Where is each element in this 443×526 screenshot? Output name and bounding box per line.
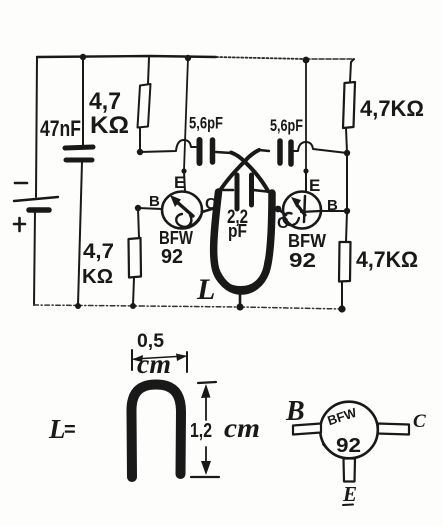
wire crossing diagonal D2 (C4 down to left inductor leg) (219, 150, 259, 192)
node junction R1 bottom (137, 149, 143, 155)
svg-text:KΩ: KΩ (82, 266, 113, 288)
capacitor C2 5.6pF left plate (197, 140, 203, 163)
svg-text:E: E (309, 176, 320, 195)
transistor Q1 circle (162, 192, 202, 229)
wire top supply rail (solid part) (37, 56, 216, 57)
wire emitter column left (top rail to node) (184, 58, 188, 170)
battery minus sign (15, 182, 27, 185)
capacitor C4 5.6pF right plate (288, 142, 294, 164)
transistor Q2 circle (283, 192, 321, 229)
wire top supply rail (dashed right part) (305, 58, 354, 60)
battery BT1 long plate (minus) (14, 197, 58, 201)
svg-text:C: C (277, 215, 289, 232)
dimension 1,2cm lower arrow line (205, 447, 207, 472)
transistor Q1 inner collector stroke (186, 215, 201, 227)
underline of pinout E label (343, 504, 353, 507)
svg-text:92: 92 (289, 250, 316, 272)
node junction R3/bottom rail (130, 303, 136, 309)
pinout circle doubled bottom arc (323, 444, 351, 459)
wire C4 right with hop over emitter column to right column (294, 142, 347, 153)
pinout lead B (left) (293, 424, 321, 435)
wire bottom lead of R1 (139, 128, 141, 152)
node junction right emitter column/top rail (303, 57, 310, 64)
wire right column upper segment (346, 153, 348, 211)
resistor R1 4.7k top-left body (138, 84, 151, 128)
wire bottom rail left segment (dash-dot) (34, 305, 140, 306)
wire crossing diagonal D1 (C2 down to right inductor leg) (231, 153, 268, 192)
transistor Q2 emitter arrow shaft (298, 206, 305, 215)
wire left vertical from battery to bottom rail (34, 211, 35, 305)
wire right column lower segment to R4 (346, 211, 347, 242)
wire bottom lead of R4 (341, 282, 343, 308)
svg-text:=: = (64, 419, 76, 441)
node junction C4 wire/right column (344, 150, 350, 156)
capacitor C4 5.6pF left plate (277, 141, 283, 163)
wire from C1 to bottom rail (78, 162, 82, 305)
capacitor C1 47nF bottom plate (66, 158, 92, 163)
svg-text:C: C (413, 411, 426, 432)
capacitor C2 5.6pF right plate (210, 140, 216, 162)
svg-text:KΩ: KΩ (90, 112, 129, 139)
dimension 0,5cm right arrowhead (176, 354, 187, 362)
wire bottom rail middle segment (dash-dot) (140, 306, 240, 307)
svg-text:47nF: 47nF (40, 116, 81, 141)
node small junction blob on right emitter column (303, 168, 308, 173)
inductor L detail hairpin (131, 385, 181, 478)
transistor Q1 emitter arrow shaft (177, 202, 193, 216)
wire bottom lead of R3 (133, 278, 134, 305)
svg-text:L: L (48, 414, 66, 444)
transistor Q1 emitter arrowhead (170, 195, 181, 207)
battery BT1 short thick plate (plus) (29, 207, 49, 213)
dimension 1,2cm bottom bar (191, 476, 219, 478)
node small junction blob on left emitter column (181, 168, 186, 173)
wire collector of Q1 to inductor leg (202, 208, 215, 212)
svg-text:92: 92 (336, 435, 361, 457)
svg-text:B: B (285, 396, 305, 427)
dimension 0,5cm left arrowhead (132, 355, 143, 362)
wire base of Q2 inside circle (301, 211, 320, 212)
wire left vertical from top rail to battery (36, 57, 37, 197)
resistor R3 4.7k bottom-left body (129, 238, 142, 278)
wire left stub of C4 to diagonal (259, 150, 269, 151)
wire top lead of R3 (138, 208, 139, 238)
svg-text:BFW: BFW (159, 228, 193, 248)
svg-text:4,7KΩ: 4,7KΩ (356, 247, 418, 272)
transistor Q2 emitter arrowhead (291, 197, 301, 208)
svg-text:5,6pF: 5,6pF (270, 116, 303, 135)
wire base of Q2 to right column (321, 210, 347, 212)
node junction Q2 collector/inductor leg (275, 206, 282, 213)
svg-text:BFW: BFW (288, 231, 326, 251)
svg-text:1,2: 1,2 (190, 420, 212, 442)
wire inductor tap to bottom rail (239, 293, 242, 306)
resistor R4 4.7k bottom-right body (339, 242, 351, 282)
wire collector of Q2 to inductor leg (278, 209, 286, 215)
dimension 1,2cm lower arrowhead (201, 461, 211, 475)
svg-text:B: B (327, 197, 338, 214)
wire emitter column right (top rail to node) (305, 61, 307, 170)
svg-text:L: L (196, 273, 215, 306)
node junction Q1 base/left column (135, 205, 141, 211)
pinout lead E (bottom) (344, 459, 356, 482)
wire top supply rail (dotted middle part) (216, 57, 305, 59)
dimension 0,5cm left tick (131, 350, 133, 370)
wire bottom rail right segment (dash-dot) (240, 307, 342, 309)
wire C2 to crossing diagonal (216, 152, 231, 153)
svg-text:92: 92 (161, 246, 183, 268)
dimension 1,2cm upper arrow line (205, 388, 207, 420)
svg-text:C: C (205, 196, 217, 213)
wire right emitter lead into Q2 (305, 171, 307, 192)
transistor Q2 inner emitter bar (304, 196, 305, 222)
dimension 1,2cm top bar (198, 382, 216, 383)
node junction R4/bottom rail (338, 305, 345, 312)
wire 47nF branch from top rail (82, 57, 84, 146)
wire right stub of C3 (253, 190, 271, 192)
svg-text:4,7: 4,7 (89, 88, 121, 115)
pinout lead C (right) (378, 424, 409, 435)
node junction C1/bottom rail (75, 303, 81, 309)
node junction inductor/bottom rail (236, 303, 243, 310)
inductor L hairpin bottom reinforcing stroke (214, 258, 268, 289)
transistor pinout detail body circle (320, 402, 378, 459)
capacitor C1 47nF top plate (65, 147, 93, 148)
capacitor C3 2.2pF left plate (235, 175, 240, 209)
node junction left emitter column/top rail (185, 55, 191, 61)
wire bottom lead of R2 (346, 128, 347, 153)
inductor L hairpin loop (214, 192, 272, 291)
dimension 1,2cm upper arrowhead (201, 384, 211, 398)
svg-text:4,7: 4,7 (83, 240, 114, 263)
wire from R1 node to C2 with hop over emitter line (140, 140, 196, 152)
svg-text:B: B (149, 193, 160, 210)
svg-text:cm: cm (137, 349, 171, 379)
wire base of Q1 (138, 208, 162, 209)
node junction C1/top rail (80, 54, 86, 60)
svg-text:E: E (174, 173, 185, 192)
battery plus sign (14, 218, 25, 231)
svg-text:5,6pF: 5,6pF (189, 114, 223, 133)
svg-text:cm: cm (224, 413, 260, 443)
resistor R2 4.7k top-right body (343, 82, 355, 128)
transistor Q2 inner curl (284, 213, 299, 225)
svg-text:pF: pF (228, 221, 247, 241)
capacitor C3 2.2pF right plate (249, 175, 254, 205)
svg-text:4,7KΩ: 4,7KΩ (360, 96, 424, 121)
wire top lead of R1 (148, 58, 149, 84)
svg-text:E: E (342, 482, 357, 506)
transistor Q1 inner curl (176, 214, 191, 227)
dimension 0,5cm arrow line (134, 356, 185, 359)
dimension 0,5cm right tick (186, 352, 188, 372)
wire top lead of R2 from rail corner (350, 59, 354, 82)
wire left emitter lead into Q1 (184, 171, 185, 192)
pinout inner text BFW (326, 405, 359, 429)
wire left stub of C3 (219, 189, 233, 192)
node junction Q2 base/right column (344, 208, 350, 214)
